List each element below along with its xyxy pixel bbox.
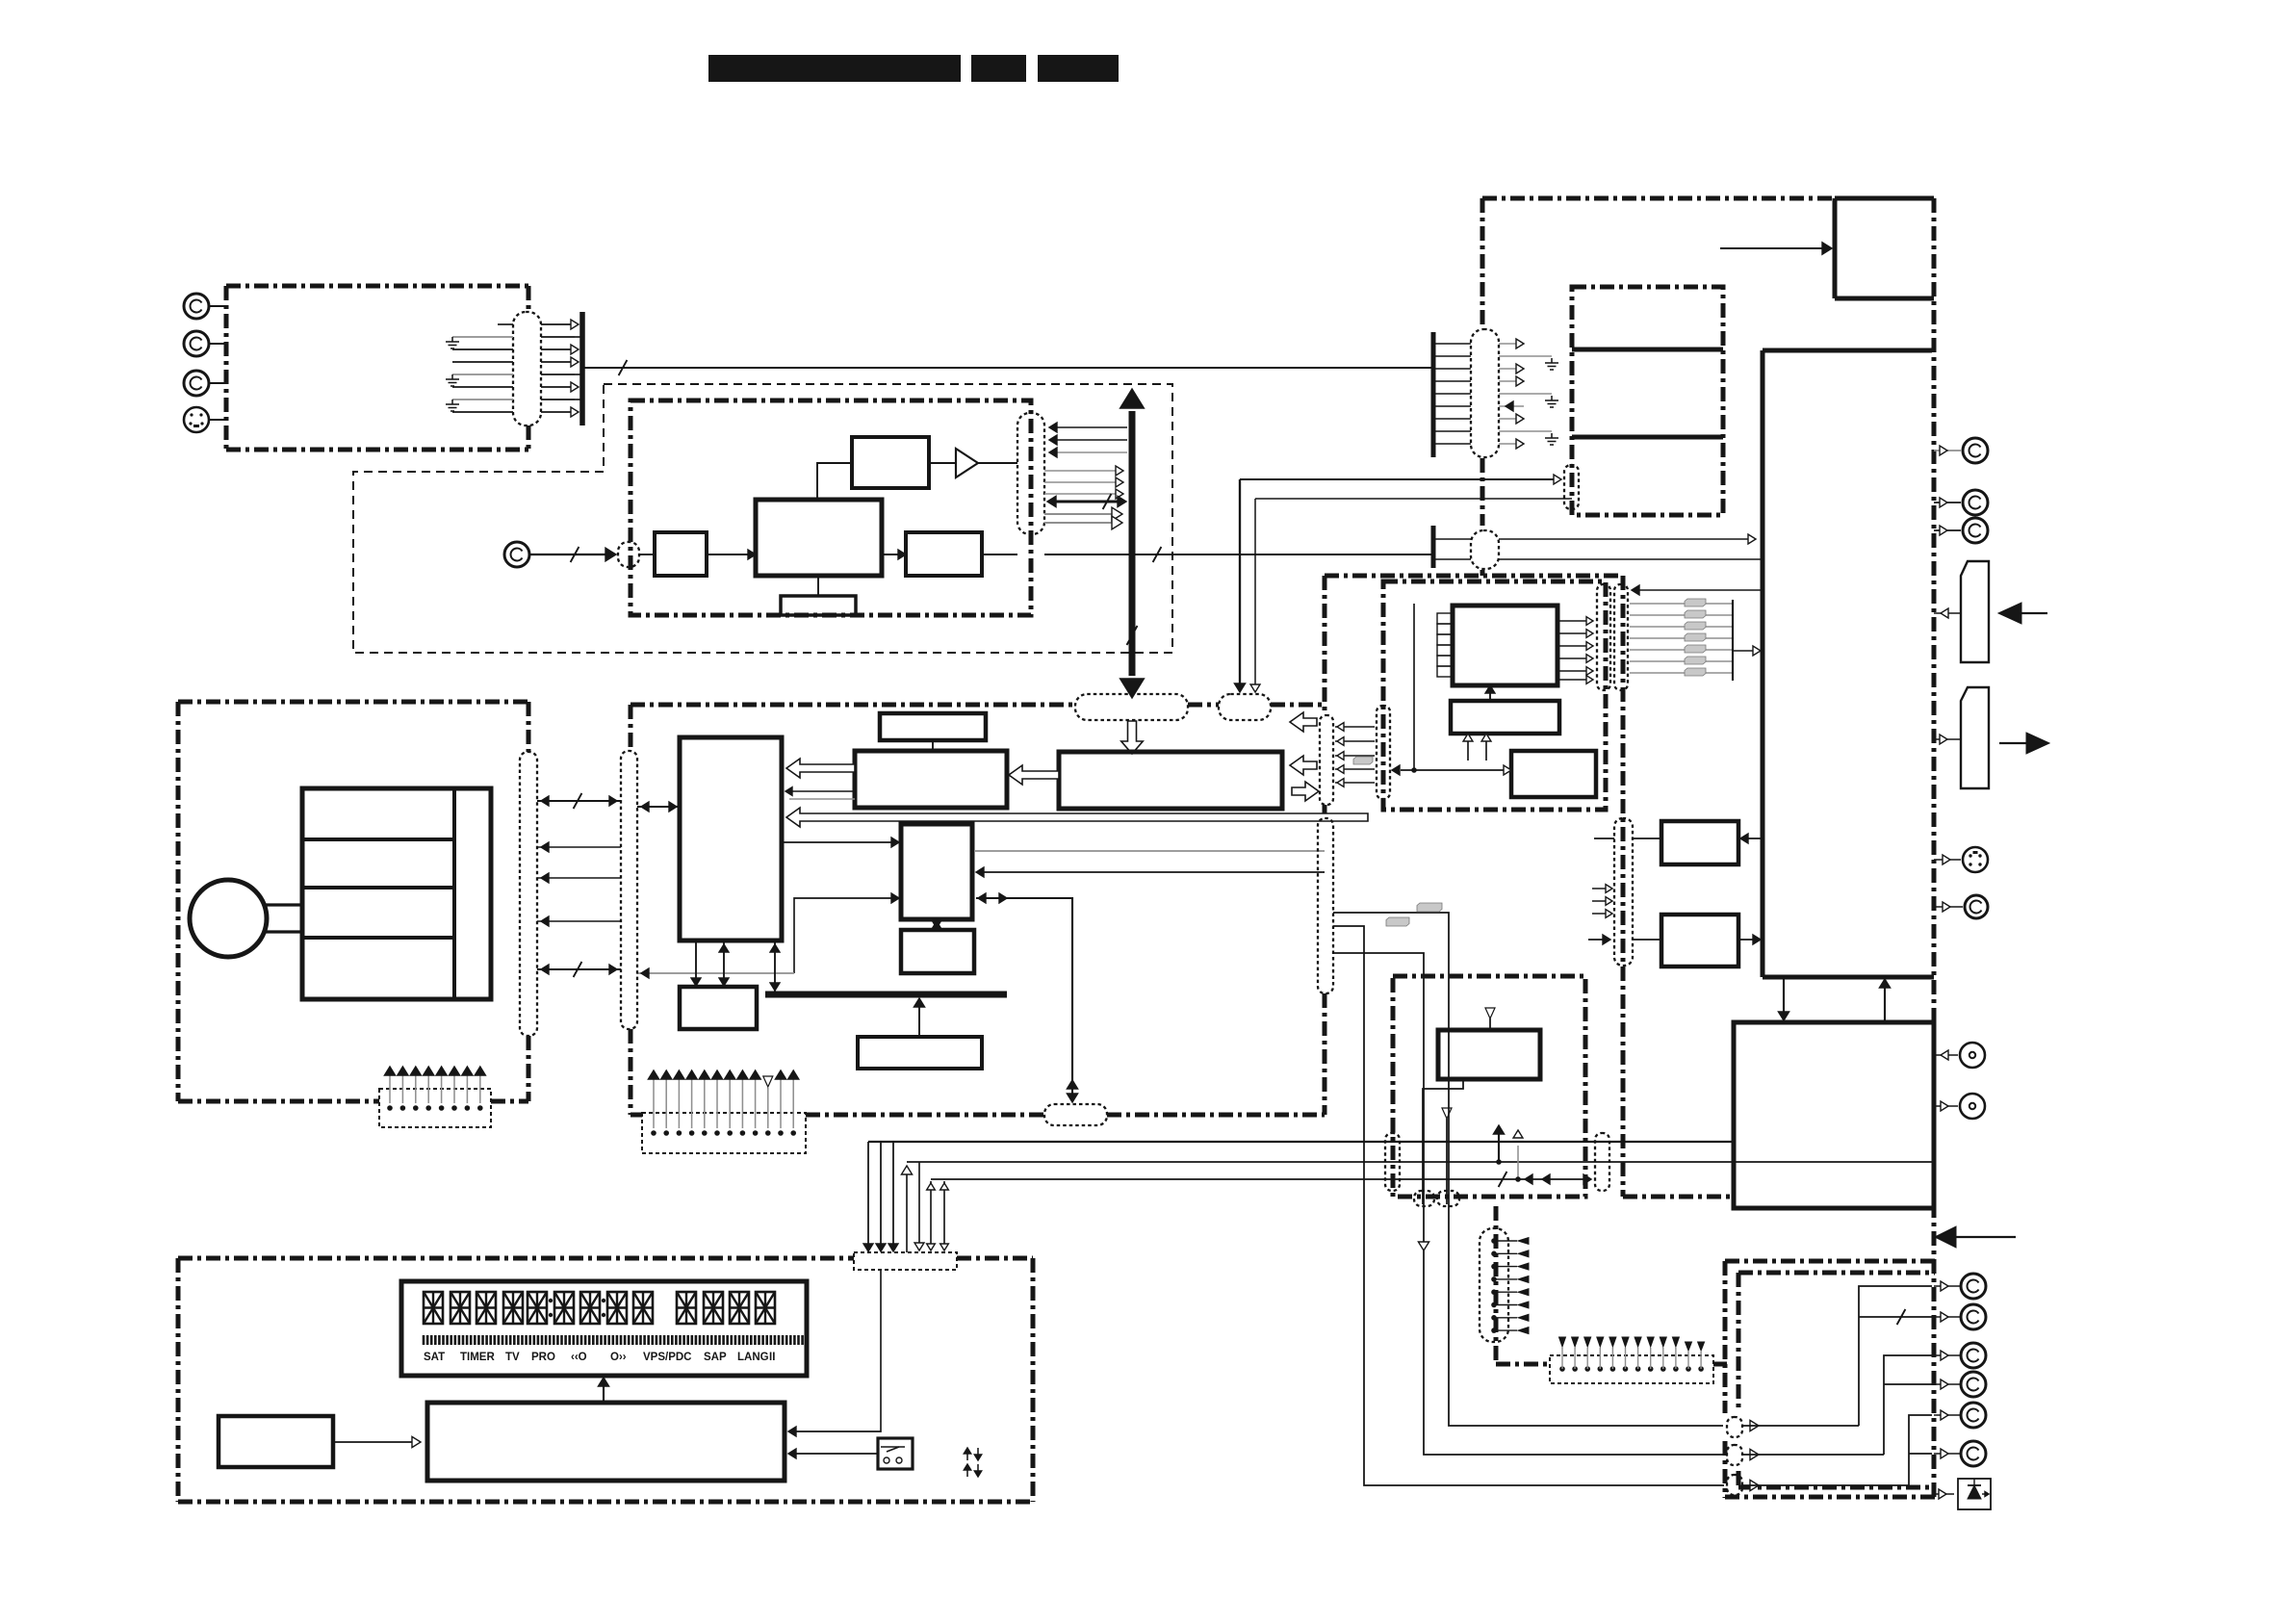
svg-text:TV: TV [505, 1352, 520, 1363]
svg-text:SAP: SAP [704, 1352, 727, 1363]
svg-text:‹‹O: ‹‹O [571, 1352, 587, 1363]
svg-text:TIMER: TIMER [460, 1352, 495, 1363]
svg-text:LANG: LANG [737, 1352, 769, 1363]
svg-text:VPS/PDC: VPS/PDC [643, 1352, 692, 1363]
svg-text:PRO: PRO [531, 1352, 555, 1363]
svg-text:II: II [769, 1352, 775, 1363]
svg-text:SAT: SAT [424, 1352, 445, 1363]
svg-text:O››: O›› [610, 1352, 627, 1363]
